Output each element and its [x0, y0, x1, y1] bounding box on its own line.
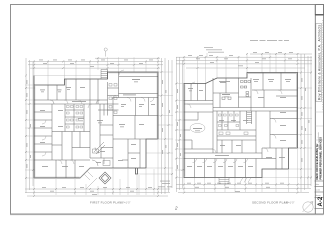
right plan left dimension ticks: [176, 83, 184, 179]
svg-text:NEW OFFICE BUILDING for: NEW OFFICE BUILDING for: [315, 143, 319, 179]
left plan left dimension figures: [27, 80, 31, 168]
right plan left dimension figures: [177, 89, 181, 169]
left plan canopy line: [34, 75, 101, 77]
right plan top note text (faint): [204, 47, 224, 53]
left plan core fixtures: [109, 84, 117, 114]
title block logo box: [315, 5, 323, 15]
left plan exterior stair: [101, 70, 108, 80]
right plan right dimension figures: [302, 78, 310, 162]
right plan board room table: [190, 124, 205, 133]
right plan bottom dimension ticks: [183, 184, 299, 194]
right plan bottom extension lines: [184, 149, 298, 192]
left plan bottom extension lines: [34, 140, 158, 195]
left plan lobby reception diagonal: [94, 142, 105, 154]
left plan center core fixtures: [67, 106, 83, 129]
right plan exterior steps below wall: [219, 178, 229, 185]
right plan top dimension lines: [176, 54, 312, 68]
right plan entry walk hatch: [240, 178, 251, 183]
right plan toilet fixtures: [222, 81, 251, 100]
left plan top extension lines: [34, 57, 158, 85]
left plan top dimension ticks: [33, 57, 159, 69]
right plan core partitions: [184, 111, 256, 153]
left plan outer wall inner face: [35, 73, 157, 177]
left plan keynote bubble: [104, 48, 107, 57]
left plan left extension lines: [25, 85, 35, 178]
left plan right-wing partitions: [113, 116, 158, 169]
right plan bottom row partitions: [195, 148, 289, 178]
north arrow: [303, 202, 314, 213]
svg-text:Roy Dittemore & Associates, P.: Roy Dittemore & Associates, P.A. Archite…: [317, 24, 321, 100]
title block firm name (rotated): [316, 24, 322, 102]
left plan right extension lines: [137, 72, 173, 174]
left plan left dimension ticks: [25, 75, 34, 180]
left plan bottom dimension ticks: [33, 188, 159, 197]
right plan outer wall: [184, 73, 298, 178]
right plan stair treads: [247, 113, 252, 123]
title block left rule: [314, 5, 316, 215]
right plan room labels (specks): [187, 79, 291, 167]
left plan right dimension figures: [162, 80, 170, 154]
left plan corridor walls: [34, 98, 158, 161]
left plan right dimension lines: [162, 58, 173, 194]
left plan corridor label: [72, 100, 86, 103]
sheet border bottom heavy line: [10, 214, 324, 216]
title block row labels: [315, 183, 321, 197]
left plan top dimension lines: [28, 58, 163, 68]
svg-text:FIRST FLOOR PLAN: FIRST FLOOR PLAN: [90, 201, 122, 205]
left plan bottom-right note text: [158, 181, 172, 188]
left plan entry vestibule (rotated square): [99, 172, 111, 184]
left plan left dimension lines: [26, 58, 33, 193]
svg-text:1/8"=1'-0": 1/8"=1'-0": [284, 202, 294, 205]
right plan outer wall inner face: [185, 73, 297, 176]
left plan bottom dimension figures: [42, 187, 152, 195]
right plan corridor walls: [184, 101, 298, 159]
right plan top extension lines: [184, 53, 298, 84]
left plan entry walk diagonal: [80, 168, 97, 189]
right plan top dimension figures: [188, 52, 293, 66]
svg-text:drawn: drawn: [315, 195, 320, 197]
right plan door swings: [187, 82, 282, 163]
left plan bottom dimension lines: [25, 189, 170, 196]
svg-text:SECOND FLOOR PLAN: SECOND FLOOR PLAN: [252, 201, 288, 205]
title block address rows (faint): [315, 112, 323, 140]
right plan left extension lines: [175, 84, 185, 178]
svg-text:PREMIER PERSONNEL SERVICES: PREMIER PERSONNEL SERVICES: [319, 137, 323, 180]
left plan interior partitions lower: [34, 104, 113, 178]
svg-text:A-2: A-2: [318, 196, 324, 206]
right plan right extension lines: [262, 73, 312, 178]
right plan corridor label: [215, 154, 229, 157]
right plan mech room label: [219, 80, 230, 83]
title block data rows: [315, 181, 324, 209]
right plan bottom dimension lines: [176, 185, 311, 193]
right plan top dimension ticks: [183, 53, 299, 69]
left plan lobby fixtures: [92, 100, 110, 166]
left plan outer wall: [34, 72, 158, 178]
svg-text:1/8"=1'-0": 1/8"=1'-0": [120, 202, 130, 205]
left plan conference front wall: [119, 75, 158, 77]
right plan core fixture specks: [219, 114, 249, 135]
right plan right dimension lines: [301, 54, 311, 192]
right plan top-right note line (faint): [250, 39, 289, 42]
left plan interior partitions upper: [48, 72, 158, 168]
right plan bottom dimension figures: [187, 183, 284, 192]
left plan top dimension figures: [39, 60, 153, 67]
left plan door swings: [42, 70, 154, 164]
svg-text:2: 2: [174, 206, 178, 211]
left plan right dimension ticks: [161, 71, 174, 175]
right plan right dimension ticks: [300, 72, 312, 179]
title block dotted separator: [322, 20, 324, 110]
left plan room labels (specks): [40, 79, 155, 167]
right plan interior partitions upper: [191, 73, 298, 154]
right plan left dimension lines: [177, 57, 183, 192]
